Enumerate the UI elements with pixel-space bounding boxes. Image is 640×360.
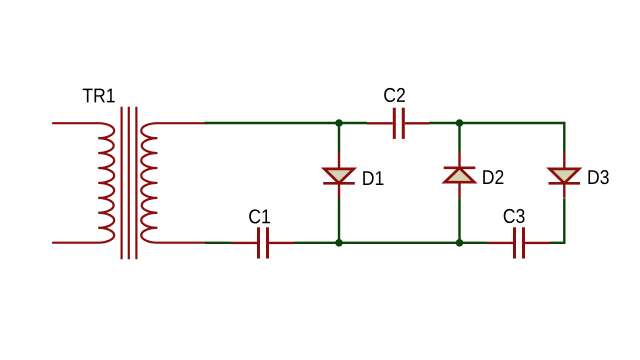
diode D1 cathode bar bbox=[323, 182, 355, 185]
capacitor C1 plates bbox=[257, 227, 260, 258]
label TR1 bbox=[83, 89, 115, 103]
label C1 bbox=[249, 209, 270, 223]
wire: bottom rail right (C3 to corner + up to D3) bbox=[550, 198, 564, 243]
wire: bottom rail left (TR1 sec bottom to C1) bbox=[205, 242, 231, 244]
core line 1 bbox=[120, 107, 122, 260]
diode D1 triangle bbox=[324, 169, 354, 183]
core line 2 bbox=[128, 107, 130, 260]
label C3 bbox=[504, 209, 525, 223]
diode D1 bottom lead bbox=[338, 183, 340, 198]
junction dot: D1 bottom bbox=[335, 239, 343, 247]
wire: top rail left (TR1 sec top to C2) bbox=[205, 122, 368, 124]
wire: D2 top stub bbox=[458, 123, 460, 152]
capacitor C2 plates bbox=[393, 108, 396, 139]
junction dot: D2 bottom bbox=[456, 239, 464, 247]
junction dot: D1 top bbox=[335, 119, 343, 127]
diode D2 top lead bbox=[458, 152, 460, 168]
diode D3 triangle bbox=[550, 169, 580, 183]
wire: bottom rail middle (C1 to C3) bbox=[294, 242, 487, 244]
junction dot: D2 top bbox=[456, 119, 464, 127]
diode D3 cathode bar bbox=[549, 182, 581, 185]
label D3 bbox=[588, 170, 608, 184]
capacitor C2 leads bbox=[367, 122, 393, 124]
label D1 bbox=[363, 171, 383, 185]
diode D3 top lead bbox=[563, 152, 565, 170]
capacitor C3 plates bbox=[513, 227, 516, 258]
wire: top rail right (C2 to top-right corner + down to D3) bbox=[429, 123, 564, 152]
label C2 bbox=[384, 88, 405, 102]
diode D2 triangle bbox=[445, 168, 475, 182]
label D2 bbox=[483, 170, 503, 184]
primary winding bbox=[53, 123, 114, 243]
diode D2 cathode bar bbox=[444, 166, 476, 169]
transformer TR1 bbox=[53, 107, 206, 260]
capacitor C3 leads bbox=[487, 242, 513, 244]
diode D2 bottom lead bbox=[458, 182, 460, 198]
wire: D1 top stub bbox=[338, 123, 340, 152]
capacitor C1 leads bbox=[231, 242, 257, 244]
wire: D2 bottom stub bbox=[458, 198, 460, 243]
diode D3 bottom lead bbox=[563, 183, 565, 198]
core line 3 bbox=[135, 107, 137, 260]
secondary winding bbox=[141, 123, 206, 243]
wire: D1 bottom stub bbox=[338, 198, 340, 243]
diode D1 top lead bbox=[338, 152, 340, 170]
